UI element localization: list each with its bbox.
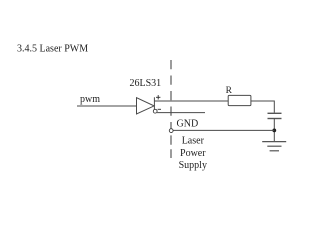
- wire GND net: [173, 129, 274, 131]
- capacitor C1: [268, 113, 282, 118]
- pin + label: [156, 95, 160, 99]
- svg-text:Power: Power: [180, 148, 206, 159]
- wire pwm input: [77, 105, 137, 107]
- boundary dashed line laser power supply upper: [170, 60, 172, 129]
- svg-text:GND: GND: [177, 119, 199, 130]
- buffer U1 26LS31 driver triangle: [137, 98, 155, 114]
- wire resistor to capacitor corner: [251, 101, 274, 113]
- svg-text:26LS31: 26LS31: [130, 78, 162, 89]
- node junction dot: [272, 129, 276, 133]
- svg-text:Supply: Supply: [179, 160, 207, 171]
- ground symbol: [262, 142, 286, 151]
- pin - label: [158, 108, 161, 110]
- svg-text:R: R: [226, 86, 233, 96]
- resistor R: [228, 95, 251, 105]
- boundary dashed line laser power supply lower: [170, 135, 172, 158]
- svg-text:pwm: pwm: [80, 94, 100, 105]
- node GND terminal circle: [169, 129, 173, 133]
- wire output stub vertical: [153, 97, 155, 109]
- wire noninverting output to resistor: [154, 100, 228, 102]
- wire inverting output: [157, 112, 205, 114]
- svg-text:Laser: Laser: [182, 136, 205, 147]
- svg-text:3.4.5 Laser PWM: 3.4.5 Laser PWM: [17, 44, 88, 55]
- wire capacitor to ground: [273, 119, 275, 142]
- inverting output bubble: [153, 109, 157, 113]
